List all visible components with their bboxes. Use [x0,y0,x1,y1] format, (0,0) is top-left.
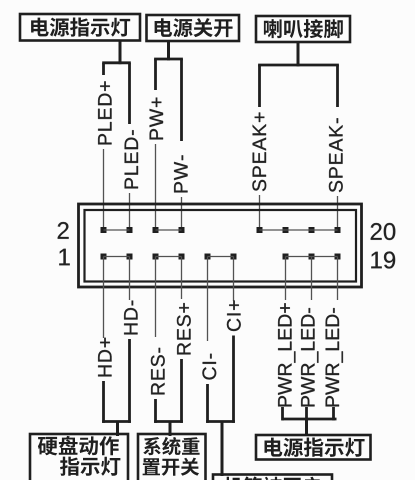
wire: PWR join bar [282,418,337,421]
pin 14 (top row) [257,227,263,233]
jumper pins 1-3 [104,256,130,258]
wire: thin lead bottom col 6 [285,257,287,301]
wire: PWR feed to box [305,419,308,436]
wire: drop to SPEAK- label [336,65,339,107]
wire: drop to SPEAK+ label [258,65,261,107]
jumper pins 9-11 [208,256,234,258]
label HD+ (pin 1) [98,338,111,377]
pin 15 (bottom row) [283,254,289,260]
wire: drop to PLED+ label [102,63,105,75]
wire: thin lead top col 1 [129,193,131,230]
label PLED- (pin 4) [125,130,138,188]
label RES- (pin 5) [151,348,165,395]
wire: HD- drop [128,339,131,423]
wire: box3 feed down [297,42,300,66]
wire: thin lead bottom col 8 [337,257,339,301]
pin 18 (top row) [309,227,315,233]
wire: RES- drop [154,399,157,423]
pin 17 (bottom row) [309,254,315,260]
jumper pins 2-4 [104,229,130,231]
jumper pins 6-8 [156,229,182,231]
pin 11 (bottom row) [231,254,237,260]
wire: CI- drop [206,384,209,423]
wire: thin lead bottom col 5 [233,257,235,302]
wire: HD+ drop [102,381,105,423]
pin 1 (bottom row) [101,254,107,260]
label PWR_LED+ (pin 15) [278,303,295,406]
label SPEAK+ (pin 14) [252,113,266,192]
wire: thin lead top col 4 [259,195,261,230]
jumper pins 14-20 [260,229,338,231]
wire: RES feed to box [169,422,172,437]
box: reset switch label (系统重置开关) [138,434,206,480]
wire: thin lead bottom col 0 [103,257,105,339]
wire: HD feed to box [116,422,119,437]
wire: PWR_LED-3 drop [332,407,335,420]
pin 9 (bottom row) [205,254,211,260]
wire: thin lead bottom col 7 [311,257,313,301]
connector outer frame [79,204,362,287]
wire: HD join bar [102,420,131,423]
wire: box2 feed down [167,41,170,60]
jumper pins 15-19 [286,256,338,258]
label PW- (pin 8) [174,155,187,192]
wire: box1 split bar [102,61,131,64]
pin number 20 [371,223,396,240]
label PWR_LED- (pin 19) [326,308,343,406]
box: power LED label (电源指示灯) [20,14,140,41]
pin 6 (top row) [153,227,159,233]
box: HDD LED label (硬盘动作指示灯) [30,434,128,480]
wire: drop to PW+ label [154,59,157,90]
wire: drop to PLED- label [128,63,131,124]
pin 2 (top row) [101,227,107,233]
wire: CI feed to box [221,422,224,477]
connector inner frame [85,210,357,282]
wire: box1 feed down [119,41,122,65]
label PWR_LED- (pin 17) [301,308,318,406]
label PLED+ (pin 2) [98,81,111,144]
jumper pins 5-7 [156,256,182,258]
pin 19 (bottom row) [335,254,341,260]
box: power switch label (电源关开) [147,15,240,41]
wire: thin lead bottom col 4 [207,257,209,342]
wire: PWR_LED+ drop [281,407,284,420]
wire: thin lead bottom col 3 [181,257,183,300]
label RES+ (pin 7) [177,303,191,354]
wire: box3 split bar [258,64,339,67]
pin 3 (bottom row) [127,254,133,260]
wire: thin lead bottom col 2 [155,257,157,338]
wire: RES join bar [154,420,183,423]
wire: CI+ drop [232,336,235,423]
label CI+ (pin 11) [227,301,241,332]
wire: thin lead top col 2 [155,144,157,230]
wire: thin lead top col 3 [181,197,183,230]
pin number 2 [58,222,69,239]
wire: PWR_LED-2 drop [305,407,308,420]
label SPEAK- (pin 20) [329,118,343,192]
wire: thin lead top col 0 [103,149,105,230]
label HD- (pin 3) [124,301,137,335]
pin 16 (top row) [283,227,289,233]
pin 5 (bottom row) [153,254,159,260]
wire: drop to PW- label [180,59,183,141]
wire: thin lead bottom col 1 [129,257,131,301]
wire: RES+ drop [180,359,183,423]
pin 20 (top row) [335,227,341,233]
wire: CI join bar [206,420,235,423]
label CI- (pin 9) [202,354,216,380]
pin 4 (top row) [127,227,133,233]
pin 7 (bottom row) [179,254,185,260]
wire: thin lead top col 5 [337,196,339,230]
box: chassis intrusion label (机箱被开启) [213,475,332,480]
wire: box2 split bar [154,58,183,61]
box: speaker pins label (喇叭接脚) [256,16,350,42]
label PW+ (pin 6) [150,98,163,140]
box: power LED label bottom (电源指示灯) [256,435,371,460]
pin number 1 [59,249,69,265]
pin 8 (top row) [179,227,185,233]
pin number 19 [371,252,395,269]
